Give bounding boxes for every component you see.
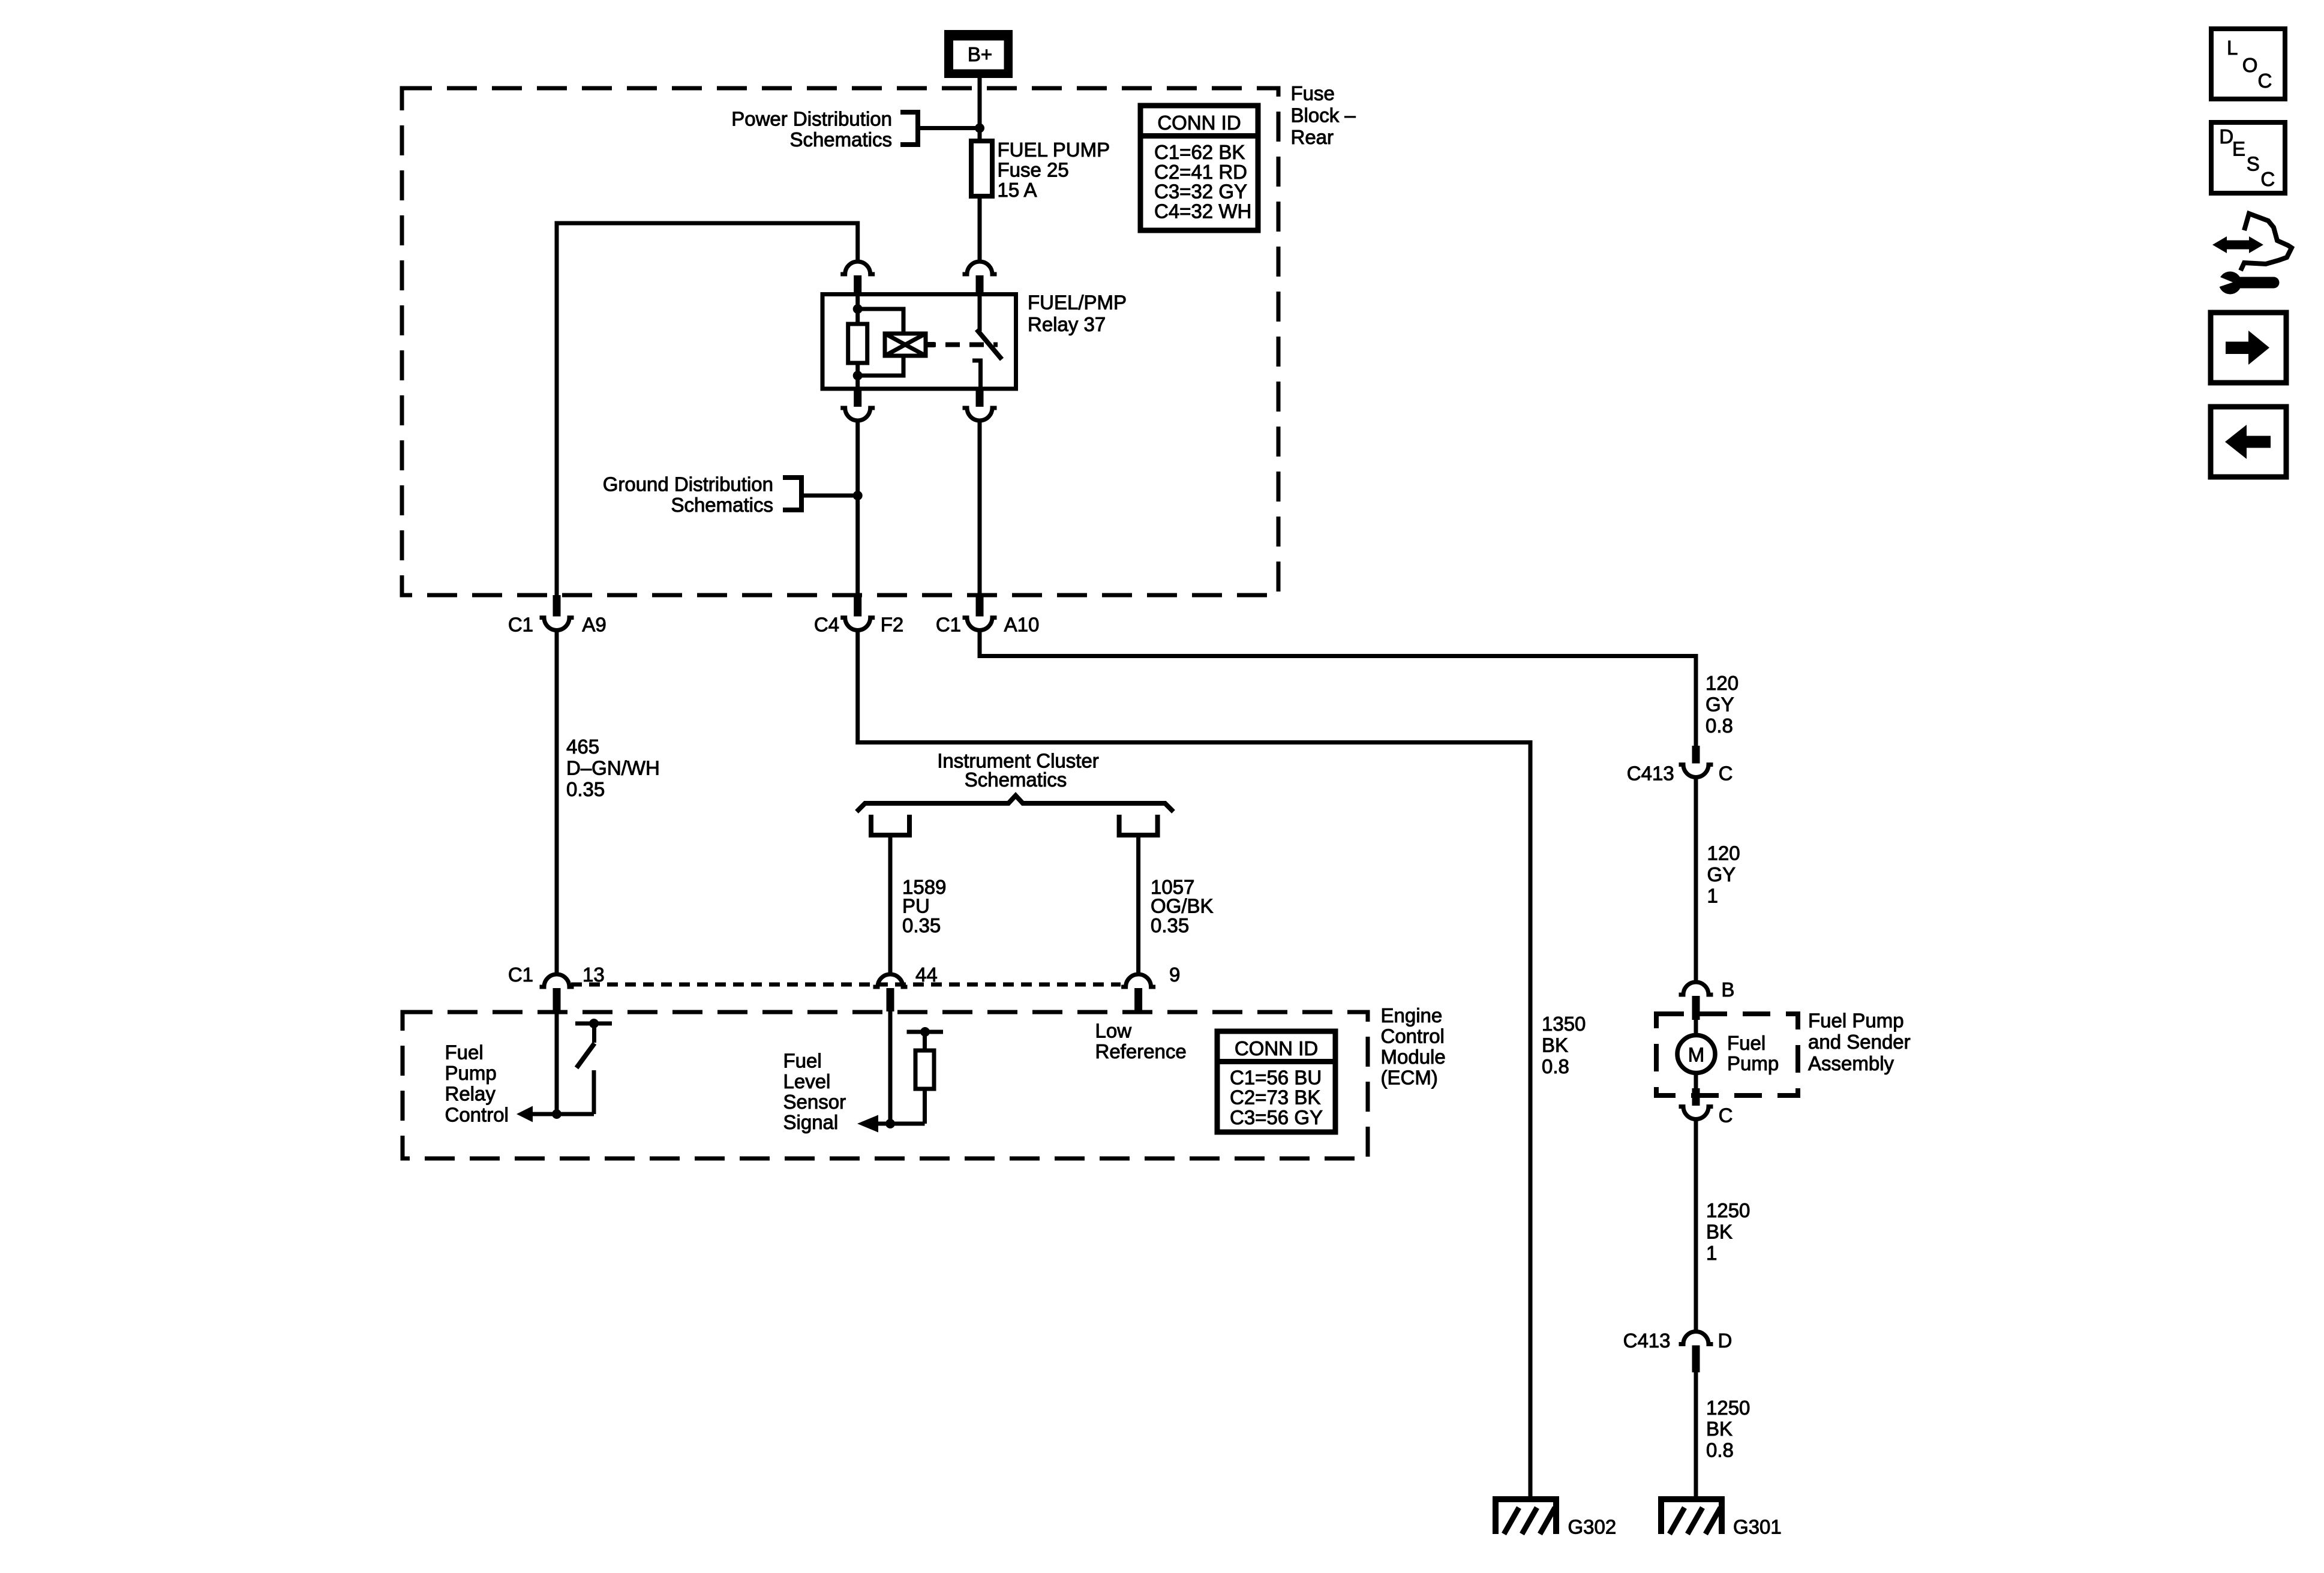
svg-text:C4: C4 [814, 614, 839, 636]
svg-text:C: C [2260, 168, 2275, 190]
svg-text:CONN ID: CONN ID [1157, 112, 1241, 134]
svg-text:120: 120 [1707, 842, 1740, 864]
svg-text:Pump: Pump [1727, 1052, 1779, 1074]
svg-text:L: L [2227, 37, 2238, 59]
svg-text:Schematics: Schematics [965, 769, 1067, 791]
svg-text:Fuel: Fuel [783, 1050, 822, 1072]
svg-text:0.8: 0.8 [1542, 1055, 1569, 1077]
svg-text:0.35: 0.35 [1151, 914, 1189, 936]
svg-text:Reference: Reference [1095, 1040, 1187, 1062]
svg-text:D–GN/WH: D–GN/WH [566, 757, 660, 779]
svg-text:and Sender: and Sender [1808, 1031, 1911, 1053]
svg-text:C3=56 GY: C3=56 GY [1230, 1106, 1323, 1128]
svg-text:Schematics: Schematics [671, 494, 773, 516]
svg-text:13: 13 [582, 963, 605, 986]
svg-text:Low: Low [1095, 1020, 1132, 1042]
svg-text:S: S [2247, 153, 2260, 175]
svg-text:C2=73 BK: C2=73 BK [1230, 1086, 1320, 1109]
svg-text:C413: C413 [1627, 763, 1674, 785]
svg-text:FUEL/PMP: FUEL/PMP [1028, 292, 1127, 314]
svg-text:0.35: 0.35 [902, 914, 941, 936]
svg-text:C1=56 BU: C1=56 BU [1230, 1067, 1322, 1089]
svg-text:D: D [1718, 1329, 1733, 1352]
svg-text:Engine: Engine [1381, 1004, 1443, 1026]
svg-text:0.35: 0.35 [566, 778, 605, 800]
svg-text:Fuel: Fuel [1727, 1032, 1765, 1054]
svg-text:GY: GY [1706, 694, 1734, 716]
svg-text:1250: 1250 [1706, 1199, 1750, 1221]
svg-text:FUEL PUMP: FUEL PUMP [998, 139, 1110, 161]
svg-text:BK: BK [1706, 1221, 1733, 1243]
svg-text:Signal: Signal [783, 1111, 839, 1133]
svg-text:Schematics: Schematics [789, 128, 892, 151]
svg-text:G301: G301 [1733, 1516, 1782, 1538]
svg-text:Assembly: Assembly [1808, 1052, 1894, 1074]
svg-text:C1=62 BK: C1=62 BK [1154, 141, 1245, 163]
svg-text:E: E [2232, 138, 2245, 160]
svg-text:44: 44 [915, 963, 938, 986]
svg-text:Rear: Rear [1291, 126, 1334, 148]
svg-text:0.8: 0.8 [1706, 1439, 1734, 1461]
svg-text:C413: C413 [1623, 1329, 1671, 1352]
svg-text:1: 1 [1707, 885, 1718, 907]
svg-text:F2: F2 [881, 614, 904, 636]
svg-text:Control: Control [445, 1104, 509, 1126]
svg-text:Fuel: Fuel [445, 1041, 484, 1064]
svg-text:C1: C1 [508, 963, 533, 986]
svg-text:A9: A9 [582, 614, 606, 636]
svg-text:1250: 1250 [1706, 1397, 1750, 1419]
svg-text:Level: Level [783, 1070, 831, 1092]
svg-text:Sensor: Sensor [783, 1091, 846, 1113]
svg-text:Relay: Relay [445, 1083, 496, 1105]
svg-text:Fuse 25: Fuse 25 [998, 159, 1069, 181]
svg-text:C: C [1719, 763, 1733, 785]
svg-text:Pump: Pump [445, 1062, 497, 1084]
svg-text:C4=32 WH: C4=32 WH [1154, 200, 1251, 223]
svg-text:Relay 37: Relay 37 [1028, 313, 1106, 335]
svg-text:C3=32 GY: C3=32 GY [1154, 181, 1247, 203]
svg-text:PU: PU [902, 895, 930, 917]
svg-text:(ECM): (ECM) [1381, 1067, 1438, 1089]
svg-text:GY: GY [1707, 863, 1736, 885]
svg-text:C1: C1 [936, 614, 961, 636]
svg-text:1350: 1350 [1542, 1013, 1586, 1035]
svg-text:BK: BK [1706, 1418, 1733, 1440]
svg-text:465: 465 [566, 736, 599, 758]
svg-text:CONN ID: CONN ID [1235, 1037, 1318, 1059]
svg-text:A10: A10 [1004, 614, 1040, 636]
svg-text:D: D [2219, 125, 2233, 148]
svg-text:OG/BK: OG/BK [1151, 895, 1214, 917]
svg-text:C: C [2258, 70, 2272, 92]
svg-text:Module: Module [1381, 1046, 1446, 1068]
svg-text:Control: Control [1381, 1025, 1445, 1047]
svg-text:Block –: Block – [1291, 104, 1356, 127]
svg-text:M: M [1688, 1044, 1705, 1066]
svg-text:C: C [1719, 1104, 1733, 1127]
svg-text:Fuel Pump: Fuel Pump [1808, 1010, 1904, 1032]
svg-text:O: O [2242, 54, 2258, 76]
svg-text:C2=41 RD: C2=41 RD [1154, 161, 1247, 183]
svg-text:G302: G302 [1568, 1516, 1617, 1538]
svg-text:Power Distribution: Power Distribution [731, 108, 892, 130]
svg-text:Fuse: Fuse [1291, 82, 1335, 104]
svg-text:1: 1 [1706, 1242, 1717, 1264]
svg-text:BK: BK [1542, 1034, 1568, 1056]
svg-text:Ground Distribution: Ground Distribution [603, 473, 773, 496]
svg-text:0.8: 0.8 [1706, 715, 1733, 737]
svg-text:120: 120 [1706, 672, 1739, 694]
svg-text:9: 9 [1169, 963, 1180, 986]
svg-text:15 A: 15 A [998, 179, 1037, 201]
svg-text:C1: C1 [508, 614, 533, 636]
svg-text:B+: B+ [968, 43, 992, 65]
svg-text:B: B [1721, 978, 1734, 1001]
